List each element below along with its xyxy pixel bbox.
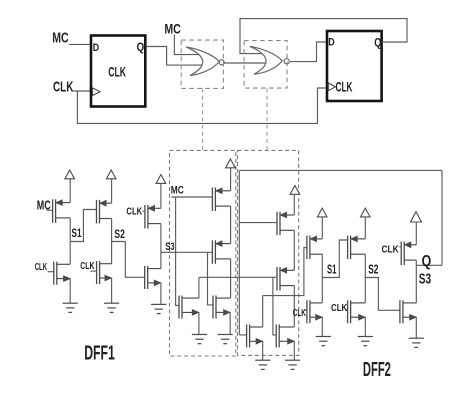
svg-text:CLK: CLK (126, 206, 142, 217)
svg-text:CLK: CLK (382, 244, 400, 255)
svg-text:MC: MC (164, 22, 181, 37)
svg-text:S1: S1 (71, 227, 82, 240)
svg-text:CLK: CLK (336, 78, 353, 94)
svg-text:Q: Q (422, 253, 432, 270)
svg-text:MC: MC (171, 184, 184, 196)
svg-text:CLK: CLK (293, 308, 306, 319)
svg-text:DFF2: DFF2 (363, 359, 391, 381)
svg-text:Q: Q (374, 35, 381, 49)
svg-text:S2: S2 (114, 228, 125, 241)
svg-text:Q: Q (137, 40, 145, 54)
svg-text:CLK: CLK (53, 79, 74, 96)
svg-text:MC: MC (52, 29, 69, 46)
svg-text:D: D (328, 36, 334, 48)
svg-text:CLK: CLK (331, 303, 348, 314)
svg-text:S3: S3 (419, 271, 431, 288)
svg-text:CLK: CLK (108, 64, 126, 80)
svg-text:CLK: CLK (80, 261, 95, 272)
svg-text:CLK: CLK (35, 262, 48, 273)
svg-text:MC: MC (37, 198, 51, 212)
svg-text:D: D (93, 42, 99, 54)
svg-text:DFF1: DFF1 (84, 342, 115, 364)
svg-text:S1: S1 (327, 262, 336, 277)
svg-text:S2: S2 (368, 262, 378, 277)
svg-text:S3: S3 (165, 241, 174, 253)
